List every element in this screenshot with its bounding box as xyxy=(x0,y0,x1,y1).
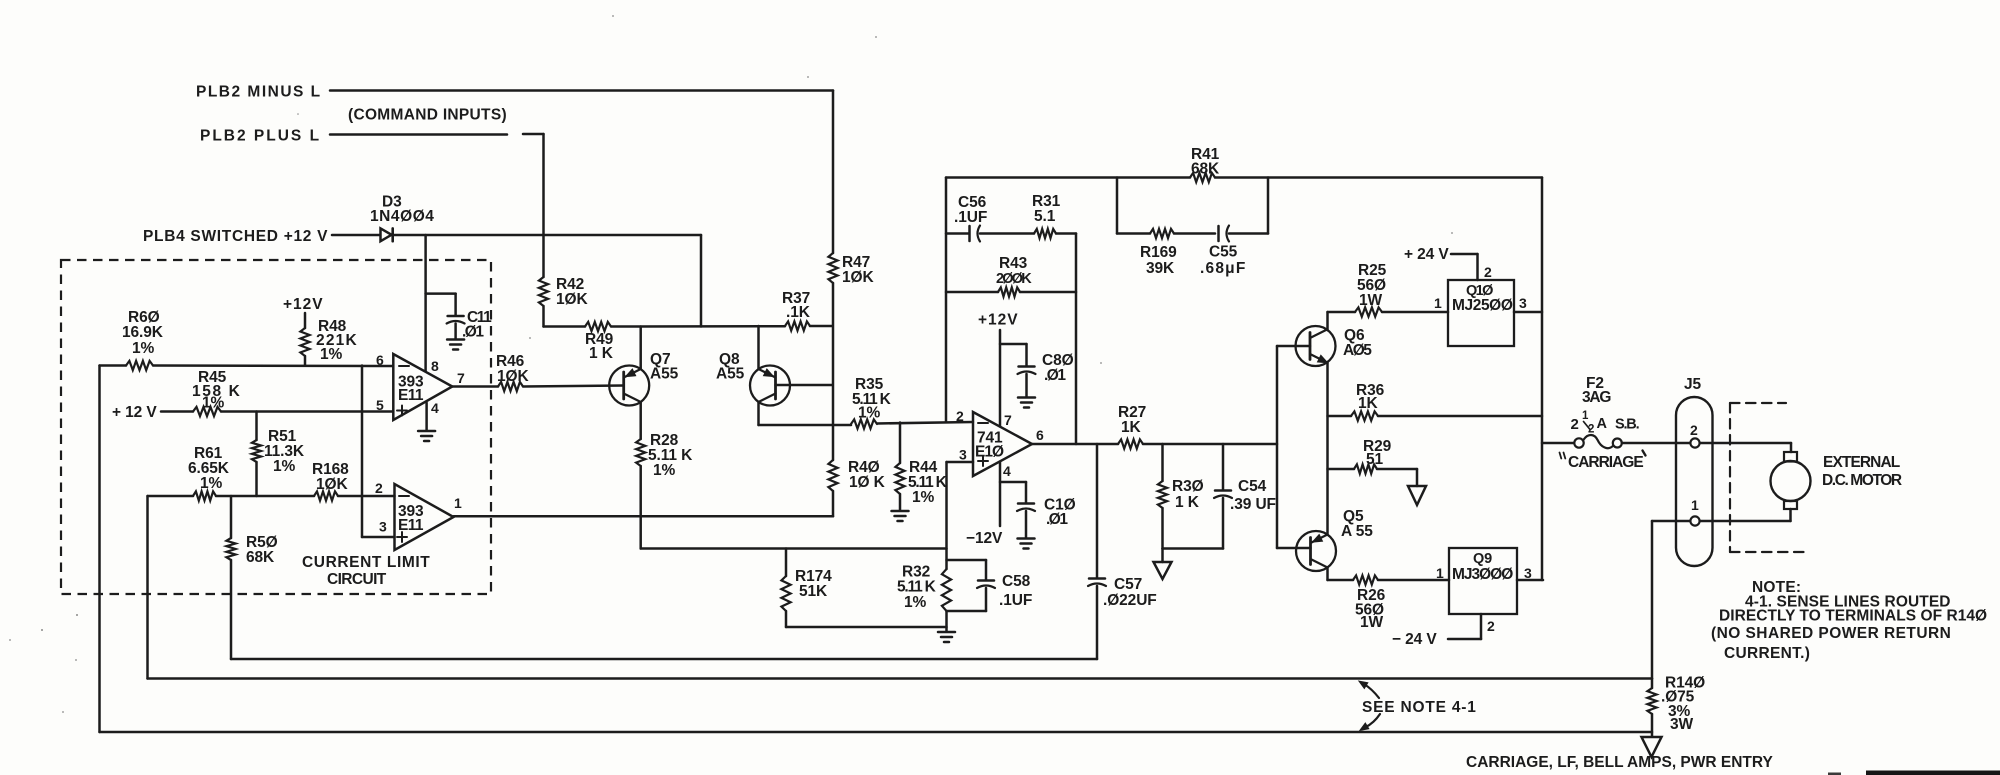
svg-text:D.C. MOTOR: D.C. MOTOR xyxy=(1822,472,1902,489)
svg-text:4: 4 xyxy=(1003,463,1011,479)
svg-text:2: 2 xyxy=(1588,424,1594,436)
svg-text:4: 4 xyxy=(431,400,439,416)
svg-text:E11: E11 xyxy=(398,387,424,404)
svg-text:CARRIAGE: CARRIAGE xyxy=(1568,454,1643,471)
svg-text:(NO SHARED POWER RETURN: (NO SHARED POWER RETURN xyxy=(1711,625,1951,642)
svg-text:1K: 1K xyxy=(1358,395,1379,412)
svg-text:2: 2 xyxy=(956,408,964,424)
svg-text:3: 3 xyxy=(1519,295,1527,311)
svg-text:7: 7 xyxy=(457,370,465,386)
svg-text:CURRENT LIMIT: CURRENT LIMIT xyxy=(302,554,430,571)
svg-text:16.9K: 16.9K xyxy=(122,324,164,341)
svg-text:5.11 K: 5.11 K xyxy=(897,579,937,596)
svg-text:2ØØK: 2ØØK xyxy=(996,271,1032,287)
svg-text:−12V: −12V xyxy=(966,530,1003,547)
svg-text:.39 UF: .39 UF xyxy=(1230,496,1276,513)
svg-text:1 K: 1 K xyxy=(589,345,614,362)
svg-text:1: 1 xyxy=(1434,295,1442,311)
svg-text:1K: 1K xyxy=(1121,419,1142,436)
svg-text:C58: C58 xyxy=(1002,573,1031,590)
svg-text:1%: 1% xyxy=(200,475,223,492)
svg-text:3: 3 xyxy=(1524,565,1532,581)
svg-text:2: 2 xyxy=(375,480,383,496)
svg-text:1ØK: 1ØK xyxy=(842,269,874,286)
svg-text:+ 24 V: + 24 V xyxy=(1404,246,1449,263)
svg-text:1 K: 1 K xyxy=(1175,494,1200,511)
svg-text:C55: C55 xyxy=(1209,244,1238,261)
svg-text:2: 2 xyxy=(1690,422,1698,438)
svg-text:1N4ØØ4: 1N4ØØ4 xyxy=(370,208,434,225)
svg-text:CARRIAGE, LF, BELL AMPS, PWR E: CARRIAGE, LF, BELL AMPS, PWR ENTRY xyxy=(1466,754,1774,771)
svg-text:CURRENT.): CURRENT.) xyxy=(1724,645,1810,662)
svg-text:CIRCUIT: CIRCUIT xyxy=(327,571,387,588)
svg-text:1%: 1% xyxy=(904,594,927,611)
svg-text:1%: 1% xyxy=(202,395,225,412)
svg-text:E11: E11 xyxy=(398,517,424,534)
svg-text:.1UF: .1UF xyxy=(954,209,987,226)
svg-text:5.1: 5.1 xyxy=(1034,208,1056,225)
svg-text:Q9: Q9 xyxy=(1473,551,1492,567)
svg-text:J5: J5 xyxy=(1684,376,1702,393)
svg-text:1%: 1% xyxy=(132,340,155,357)
svg-text:1%: 1% xyxy=(858,405,881,422)
svg-text:7: 7 xyxy=(1004,412,1012,428)
svg-text:− 24 V: − 24 V xyxy=(1392,631,1437,648)
svg-text:51K: 51K xyxy=(799,583,828,600)
svg-text:AØ5: AØ5 xyxy=(1343,342,1372,359)
svg-text:.1UF: .1UF xyxy=(999,592,1032,609)
svg-text:51: 51 xyxy=(1366,451,1384,468)
svg-text:.68μF: .68μF xyxy=(1200,260,1247,277)
svg-text:.Ø1: .Ø1 xyxy=(1044,367,1066,384)
svg-text:A55: A55 xyxy=(716,366,745,383)
svg-text:PLB4 SWITCHED +12 V: PLB4 SWITCHED +12 V xyxy=(143,228,328,245)
svg-text:PLB2 MINUS L: PLB2 MINUS L xyxy=(196,84,322,101)
svg-text:1%: 1% xyxy=(273,458,296,475)
svg-text:1: 1 xyxy=(1691,497,1699,513)
svg-text:1%: 1% xyxy=(320,346,343,363)
svg-text:39K: 39K xyxy=(1146,260,1175,277)
svg-text:2: 2 xyxy=(1484,264,1492,280)
svg-text:2: 2 xyxy=(1487,618,1495,634)
svg-text:3W: 3W xyxy=(1670,716,1694,733)
svg-text:(COMMAND INPUTS): (COMMAND INPUTS) xyxy=(348,107,507,124)
svg-text:R3Ø: R3Ø xyxy=(1172,478,1204,495)
svg-text:.Ø22UF: .Ø22UF xyxy=(1103,592,1157,609)
svg-text:1ØK: 1ØK xyxy=(497,368,529,385)
svg-text:6: 6 xyxy=(376,352,384,368)
svg-text:A55: A55 xyxy=(650,366,679,383)
svg-text:E1Ø: E1Ø xyxy=(975,444,1004,461)
svg-text:1ØK: 1ØK xyxy=(556,291,588,308)
svg-text:1: 1 xyxy=(454,495,462,511)
svg-text:S.B.: S.B. xyxy=(1615,417,1640,433)
svg-text:3: 3 xyxy=(379,519,387,535)
svg-text:3AG: 3AG xyxy=(1582,389,1611,406)
svg-text:1Ø K: 1Ø K xyxy=(849,474,886,491)
svg-text:1%: 1% xyxy=(912,489,935,506)
svg-text:.Ø1: .Ø1 xyxy=(462,324,484,341)
svg-text:1ØK: 1ØK xyxy=(316,476,348,493)
svg-text:.Ø1: .Ø1 xyxy=(1046,511,1068,528)
svg-text:SEE NOTE 4-1: SEE NOTE 4-1 xyxy=(1362,699,1477,716)
svg-text:R43: R43 xyxy=(999,255,1028,272)
svg-text:EXTERNAL: EXTERNAL xyxy=(1823,454,1900,471)
svg-text:6: 6 xyxy=(1036,427,1044,443)
svg-text:R169: R169 xyxy=(1140,244,1177,261)
svg-text:C54: C54 xyxy=(1238,478,1267,495)
svg-text:1: 1 xyxy=(1582,410,1589,422)
svg-text:2: 2 xyxy=(1571,416,1579,433)
svg-text:.1K: .1K xyxy=(786,304,811,321)
svg-text:1W: 1W xyxy=(1360,614,1384,631)
svg-text:3: 3 xyxy=(959,447,967,463)
svg-text:DIRECTLY TO TERMINALS OF R14Ø: DIRECTLY TO TERMINALS OF R14Ø xyxy=(1719,608,1987,625)
svg-text:+12V: +12V xyxy=(283,296,324,313)
svg-text:5: 5 xyxy=(376,397,384,413)
svg-text:+12V: +12V xyxy=(978,312,1019,329)
svg-text:68K: 68K xyxy=(1191,161,1220,178)
svg-text:1%: 1% xyxy=(653,462,676,479)
svg-text:PLB2 PLUS L: PLB2 PLUS L xyxy=(200,128,321,145)
svg-text:MJ25ØØ: MJ25ØØ xyxy=(1452,297,1513,314)
svg-text:68K: 68K xyxy=(246,549,275,566)
svg-text:MJ3ØØØ: MJ3ØØØ xyxy=(1452,566,1513,583)
svg-text:A 55: A 55 xyxy=(1341,523,1373,540)
svg-text:8: 8 xyxy=(431,358,439,374)
svg-text:1W: 1W xyxy=(1359,292,1383,309)
svg-text:A: A xyxy=(1597,416,1608,432)
svg-text:1: 1 xyxy=(1436,565,1444,581)
svg-text:+ 12 V: + 12 V xyxy=(112,404,157,421)
svg-text:C57: C57 xyxy=(1114,576,1142,593)
